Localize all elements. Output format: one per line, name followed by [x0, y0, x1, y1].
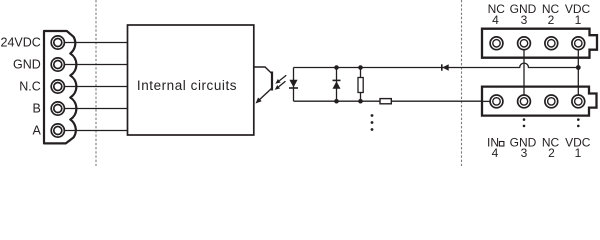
svg-text:N.C: N.C: [19, 80, 41, 94]
svg-text:1: 1: [575, 146, 582, 160]
svg-text:2: 2: [548, 146, 555, 160]
svg-text:4: 4: [492, 146, 499, 160]
svg-text:A: A: [32, 124, 41, 138]
svg-text:3: 3: [521, 13, 528, 27]
svg-text:1: 1: [575, 13, 582, 27]
svg-text:Internal circuits: Internal circuits: [137, 78, 237, 93]
svg-text:B: B: [32, 102, 40, 116]
svg-text:3: 3: [521, 146, 528, 160]
svg-text:GND: GND: [13, 58, 41, 72]
svg-text:2: 2: [548, 13, 555, 27]
svg-text:24VDC: 24VDC: [1, 36, 41, 50]
svg-text:4: 4: [492, 13, 499, 27]
